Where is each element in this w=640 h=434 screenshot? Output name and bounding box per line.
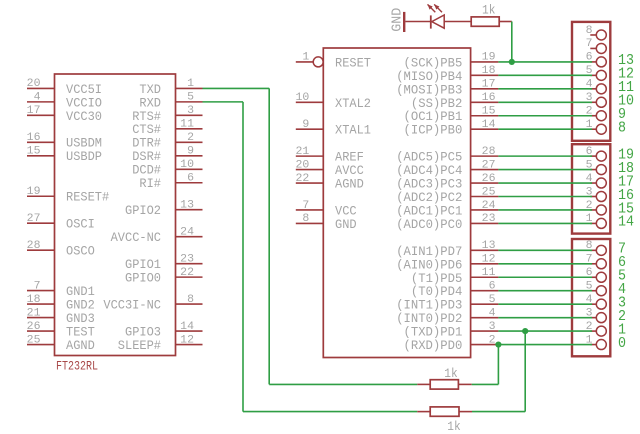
net label 18 — [618, 161, 634, 177]
JP1 pin 1 — [586, 119, 607, 134]
net label 2 — [618, 309, 626, 325]
svg-text:3: 3 — [187, 105, 194, 117]
U1 pin 17 VCC30 — [27, 105, 102, 124]
svg-text:USBDP: USBDP — [66, 149, 102, 164]
svg-text:XTAL2: XTAL2 — [335, 96, 371, 111]
svg-text:23: 23 — [180, 253, 194, 265]
svg-text:24: 24 — [180, 226, 194, 238]
U2 pin 5 (INT1)PD3 — [396, 294, 498, 313]
U1 pin 2 DTR# — [132, 132, 202, 151]
svg-text:5: 5 — [187, 92, 194, 104]
U1 pin 23 GPIO1 — [125, 253, 203, 272]
U2 pin 7 VCC — [296, 200, 357, 219]
U2 pin 9 XTAL1 — [296, 119, 371, 138]
JP3 pin 8 — [586, 240, 607, 255]
LED D1 — [428, 4, 472, 28]
wire PB5 to JP1 — [498, 61, 592, 63]
U2 pin 18 (MISO)PB4 — [396, 65, 498, 84]
JP3 pin 4 — [586, 294, 607, 309]
net label 4 — [618, 282, 626, 298]
U2 pin 13 (AIN1)PD7 — [396, 240, 498, 259]
U1 pin 28 OSCO — [27, 240, 95, 259]
JP1 pin 2 — [586, 106, 607, 121]
svg-text:14: 14 — [180, 321, 194, 333]
svg-text:6: 6 — [187, 173, 194, 185]
svg-text:9: 9 — [302, 119, 309, 131]
svg-text:8: 8 — [187, 294, 194, 306]
U1 pin 10 DCD# — [132, 159, 202, 178]
svg-text:RESET#: RESET# — [66, 190, 109, 205]
wire PD1 to JP3 — [498, 330, 592, 332]
svg-text:22: 22 — [296, 173, 310, 185]
JP1 pin 3 — [586, 92, 607, 107]
U1 pin 27 OSCI — [27, 213, 95, 232]
svg-text:11: 11 — [482, 267, 496, 279]
U2 pin 11 (T1)PD5 — [411, 267, 499, 286]
net label 0 — [618, 336, 626, 352]
U2 pin 15 (OC1)PB1 — [404, 106, 499, 125]
svg-text:21: 21 — [27, 307, 41, 319]
svg-text:FT232RL: FT232RL — [56, 359, 98, 374]
U2 pin 16 (SS)PB2 — [411, 92, 499, 111]
pin header JP1 body — [572, 22, 610, 141]
net label 16 — [618, 188, 634, 204]
U2 pin 22 AGND — [296, 173, 364, 192]
svg-text:15: 15 — [27, 146, 41, 158]
JP3 pin 6 — [586, 267, 607, 282]
JP2 pin 5 — [586, 159, 607, 174]
wire PB2 to JP1 — [498, 101, 592, 103]
U1 pin 5 RXD — [139, 92, 202, 111]
net label 19 — [618, 147, 634, 163]
U1 pin 21 GND3 — [27, 307, 95, 326]
svg-text:17: 17 — [482, 79, 496, 91]
svg-text:AGND: AGND — [66, 338, 95, 353]
net label 12 — [618, 67, 634, 83]
svg-text:9: 9 — [187, 146, 194, 158]
R2 value 1k — [444, 366, 458, 381]
U1 pin 26 TEST — [27, 321, 95, 340]
svg-text:RI#: RI# — [139, 176, 161, 191]
net label 13 — [618, 53, 634, 69]
wire PC1 to JP2 — [498, 209, 592, 211]
net label 15 — [618, 201, 634, 217]
U1 pin 25 AGND — [27, 334, 95, 353]
svg-text:(ADC0)PC0: (ADC0)PC0 — [396, 217, 462, 232]
net label 1 — [618, 322, 626, 338]
svg-text:10: 10 — [180, 159, 194, 171]
U1 pin 16 USBDM — [27, 132, 102, 151]
U2 pin 2 (RXD)PD0 — [404, 334, 499, 353]
JP2 pin 4 — [586, 173, 607, 188]
svg-text:15: 15 — [482, 106, 496, 118]
svg-text:13: 13 — [482, 240, 496, 252]
svg-text:0: 0 — [618, 336, 626, 352]
svg-text:12: 12 — [482, 254, 496, 266]
svg-text:2: 2 — [187, 132, 194, 144]
U2 pin 20 AVCC — [296, 159, 364, 178]
resistor R1 1k — [471, 17, 512, 26]
U1 pin 3 RTS# — [132, 105, 202, 124]
resistor R2 1k — [417, 380, 471, 389]
svg-text:7: 7 — [302, 200, 309, 212]
wire R3 to PD1 — [472, 411, 525, 413]
U1 pin 6 RI# — [139, 173, 202, 192]
svg-text:AVCC-NC: AVCC-NC — [111, 230, 162, 245]
svg-text:14: 14 — [482, 119, 496, 131]
svg-text:8: 8 — [302, 213, 309, 225]
U2 pin 26 (ADC3)PC3 — [396, 173, 498, 192]
IC U1 name label FT232RL — [56, 359, 98, 374]
wire PD4 to JP3 — [498, 290, 592, 292]
wire R2 to PD0 — [472, 383, 499, 385]
U2 pin 12 (AIN0)PD6 — [396, 254, 498, 273]
wire PD5 to JP3 — [498, 276, 592, 278]
U1 pin 15 USBDP — [27, 146, 102, 165]
wire TXD to R2 — [269, 383, 417, 385]
svg-text:(ICP)PB0: (ICP)PB0 — [404, 123, 463, 138]
svg-text:13: 13 — [180, 200, 194, 212]
JP3 pin 3 — [586, 307, 607, 322]
U2 pin 8 GND — [296, 213, 357, 232]
svg-text:1: 1 — [187, 78, 194, 90]
wire RXD to R3 — [243, 411, 417, 413]
svg-text:7: 7 — [34, 280, 41, 292]
svg-text:18: 18 — [482, 65, 496, 77]
svg-text:6: 6 — [489, 281, 496, 293]
net label 10 — [618, 94, 634, 110]
U2 pin 23 (ADC0)PC0 — [396, 213, 498, 232]
wire GND to LED cathode — [405, 21, 430, 23]
JP2 pin 3 — [586, 186, 607, 201]
svg-text:18: 18 — [27, 294, 41, 306]
U1 pin 1 TXD — [139, 78, 202, 97]
JP1 pin 6 — [586, 52, 607, 67]
wire PD6 to JP3 — [498, 263, 592, 265]
wire R1 to PB5 net — [511, 22, 513, 62]
net label 6 — [618, 255, 626, 271]
svg-text:AGND: AGND — [335, 177, 364, 192]
U2 pin 21 AREF — [296, 146, 364, 165]
JP1 pin 4 — [586, 79, 607, 94]
R1 value 1k — [482, 3, 496, 18]
net label 5 — [618, 269, 626, 285]
net label 3 — [618, 295, 626, 311]
svg-text:19: 19 — [482, 52, 496, 64]
svg-text:27: 27 — [482, 159, 496, 171]
resistor R3 1k — [417, 407, 472, 416]
svg-text:GPIO0: GPIO0 — [125, 271, 161, 286]
svg-text:28: 28 — [27, 240, 41, 252]
svg-text:2: 2 — [489, 334, 496, 346]
wire PC2 to JP2 — [498, 196, 592, 198]
svg-text:27: 27 — [27, 213, 41, 225]
wire PD1 vertical — [524, 331, 526, 412]
svg-text:19: 19 — [27, 186, 41, 198]
svg-text:1k: 1k — [444, 366, 458, 381]
pin header JP2 body — [572, 144, 610, 233]
wire PD0 vertical — [497, 345, 499, 385]
wire PC5 to JP2 — [498, 155, 592, 157]
wire PD0 to JP3 — [498, 344, 592, 346]
svg-text:24: 24 — [482, 200, 496, 212]
U2 pin 6 (T0)PD4 — [411, 281, 499, 300]
svg-text:11: 11 — [180, 119, 194, 131]
wire PD3 to JP3 — [498, 303, 592, 305]
JP1 pin 7 — [586, 38, 607, 53]
U1 pin 12 SLEEP# — [118, 334, 203, 353]
svg-text:GND: GND — [335, 217, 357, 232]
svg-text:OSCO: OSCO — [66, 244, 95, 259]
svg-text:25: 25 — [482, 186, 496, 198]
svg-text:VCC3I-NC: VCC3I-NC — [103, 297, 161, 312]
svg-text:10: 10 — [296, 92, 310, 104]
svg-text:14: 14 — [618, 215, 634, 231]
svg-text:OSCI: OSCI — [66, 217, 95, 232]
U2 pin 24 (ADC1)PC1 — [396, 200, 498, 219]
ground symbol GND — [390, 8, 406, 32]
svg-text:1k: 1k — [447, 419, 461, 434]
U1 pin 19 RESET# — [27, 186, 110, 205]
wire PD2 to JP3 — [498, 317, 592, 319]
junction at PD0 pin 2 — [495, 341, 501, 347]
U2 pin 4 (INT0)PD2 — [396, 307, 498, 326]
svg-text:5: 5 — [489, 294, 496, 306]
net label 11 — [618, 80, 634, 96]
svg-text:8: 8 — [586, 25, 593, 37]
net label 9 — [618, 107, 626, 123]
U2 pin 17 (MOSI)PB3 — [396, 79, 498, 98]
svg-text:SLEEP#: SLEEP# — [118, 338, 161, 353]
U2 pin 3 (TXD)PD1 — [404, 321, 499, 340]
JP1 pin 8 — [586, 25, 607, 40]
svg-text:GPIO2: GPIO2 — [125, 203, 161, 218]
net label 7 — [618, 242, 626, 258]
svg-text:XTAL1: XTAL1 — [335, 123, 371, 138]
pin header JP3 body — [572, 239, 610, 356]
wire PC0 to JP2 — [498, 222, 592, 224]
JP1 pin 5 — [586, 65, 607, 80]
U2 pin 25 (ADC2)PC2 — [396, 186, 498, 205]
svg-text:RESET: RESET — [335, 55, 371, 70]
svg-text:25: 25 — [27, 334, 41, 346]
wire TXD vertical down — [268, 88, 270, 384]
svg-text:16: 16 — [27, 132, 41, 144]
R3 value 1k — [447, 419, 461, 434]
IC U1 FT232RL body — [55, 74, 176, 356]
svg-text:4: 4 — [34, 92, 41, 104]
svg-text:4: 4 — [489, 307, 496, 319]
U1 pin 22 GPIO0 — [125, 267, 203, 286]
svg-text:20: 20 — [296, 159, 310, 171]
svg-text:21: 21 — [296, 146, 310, 158]
svg-text:VCC30: VCC30 — [66, 109, 102, 124]
U1 pin 13 GPIO2 — [125, 200, 203, 219]
U1 pin 24 AVCC-NC — [111, 226, 203, 245]
wire PC4 to JP2 — [498, 169, 592, 171]
svg-text:17: 17 — [27, 105, 41, 117]
svg-text:23: 23 — [482, 213, 496, 225]
U1 pin 18 GND2 — [27, 294, 95, 313]
wire PB1 to JP1 — [498, 115, 592, 117]
wire U1 RXD right — [203, 101, 244, 103]
JP2 pin 1 — [586, 213, 607, 228]
wire RXD vertical down — [242, 102, 244, 412]
svg-text:26: 26 — [482, 173, 496, 185]
svg-text:8: 8 — [618, 121, 626, 137]
svg-text:3: 3 — [489, 321, 496, 333]
U2 pin 10 XTAL2 — [296, 92, 372, 111]
svg-text:22: 22 — [180, 267, 194, 279]
net label 17 — [618, 174, 634, 190]
svg-text:1: 1 — [302, 52, 309, 64]
U2 pin 28 (ADC5)PC5 — [396, 146, 498, 165]
svg-text:(RXD)PD0: (RXD)PD0 — [404, 338, 463, 353]
U2 pin 1 RESET (inverting) — [296, 52, 371, 71]
U1 pin 8 VCC3I-NC — [103, 294, 202, 313]
wire PB4 to JP1 — [498, 74, 592, 76]
svg-text:16: 16 — [482, 92, 496, 104]
wire PB3 to JP1 — [498, 88, 592, 90]
U1 pin 9 DSR# — [132, 146, 202, 165]
JP3 pin 1 — [586, 334, 607, 349]
svg-text:20: 20 — [27, 78, 41, 90]
net label 14 — [618, 215, 634, 231]
svg-text:26: 26 — [27, 321, 41, 333]
U1 pin 20 VCC5I — [27, 78, 102, 97]
svg-text:12: 12 — [180, 334, 194, 346]
svg-text:GND: GND — [390, 8, 406, 32]
U2 pin 14 (ICP)PB0 — [404, 119, 499, 138]
junction at PB5 pin 19 — [509, 59, 515, 65]
U2 pin 19 (SCK)PB5 — [404, 52, 499, 71]
wire PD7 to JP3 — [498, 249, 592, 251]
U1 pin 14 GPIO3 — [125, 321, 203, 340]
svg-text:7: 7 — [586, 38, 593, 50]
wire U1 TXD right — [203, 87, 270, 89]
U1 pin 4 VCCIO — [27, 92, 102, 111]
JP3 pin 2 — [586, 321, 607, 336]
JP2 pin 2 — [586, 200, 607, 215]
svg-text:1k: 1k — [482, 3, 496, 18]
net label 8 — [618, 121, 626, 137]
U1 pin 11 CTS# — [132, 119, 202, 138]
JP3 pin 7 — [586, 254, 607, 269]
svg-text:28: 28 — [482, 146, 496, 158]
wire PB0 to JP1 — [498, 128, 592, 130]
JP2 pin 6 — [586, 146, 607, 161]
U1 pin 7 GND1 — [27, 280, 95, 299]
JP3 pin 5 — [586, 281, 607, 296]
U2 pin 27 (ADC4)PC4 — [396, 159, 498, 178]
junction at PD1 pin 3 — [522, 328, 528, 334]
IC U2 ATmega body — [323, 48, 470, 358]
wire PC3 to JP2 — [498, 182, 592, 184]
